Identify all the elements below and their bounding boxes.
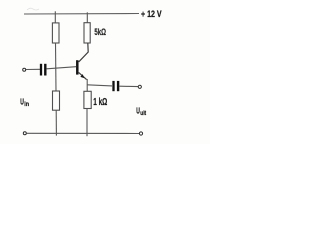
svg-text:1 kΩ: 1 kΩ (93, 97, 107, 108)
wire R4 bottom lead (86, 109, 88, 137)
capacitor C2 output coupling (112, 81, 114, 91)
svg-text:+ 12 V: + 12 V (141, 9, 162, 19)
wire C2 to output terminal (119, 85, 138, 87)
transistor Q1 base bar (76, 60, 79, 74)
wire C1 to base (47, 67, 77, 69)
wire emitter vertical (86, 79, 88, 92)
transistor Q1 emitter with arrow (79, 72, 87, 79)
svg-text:5kΩ: 5kΩ (94, 27, 106, 37)
wire R2 bottom lead (55, 110, 57, 135)
svg-text:in: in (24, 102, 29, 108)
resistor R3 collector 5k (84, 23, 90, 43)
resistor R1 (upper bias) (52, 23, 59, 43)
resistor R2 (lower bias) (53, 91, 60, 110)
node output terminal (138, 85, 141, 88)
wire input terminal to C1 (26, 68, 40, 70)
wire emitter to C2 (87, 85, 112, 86)
wire collector lead (79, 43, 89, 62)
resistor R4 emitter 1k (84, 91, 91, 108)
capacitor C1 input coupling (40, 64, 42, 76)
wire bias divider node vertical (55, 43, 58, 91)
scan smudge (faint) (27, 8, 39, 10)
node bottom left terminal (23, 132, 26, 135)
node bottom right terminal (139, 132, 142, 135)
svg-text:uit: uit (140, 111, 146, 117)
wire R3 top lead with junction tick (86, 12, 88, 23)
node input terminal (23, 68, 26, 71)
wire top supply rail (24, 13, 139, 16)
wire bottom ground rail (27, 132, 140, 134)
wire R1 top lead with junction tick (54, 11, 56, 23)
